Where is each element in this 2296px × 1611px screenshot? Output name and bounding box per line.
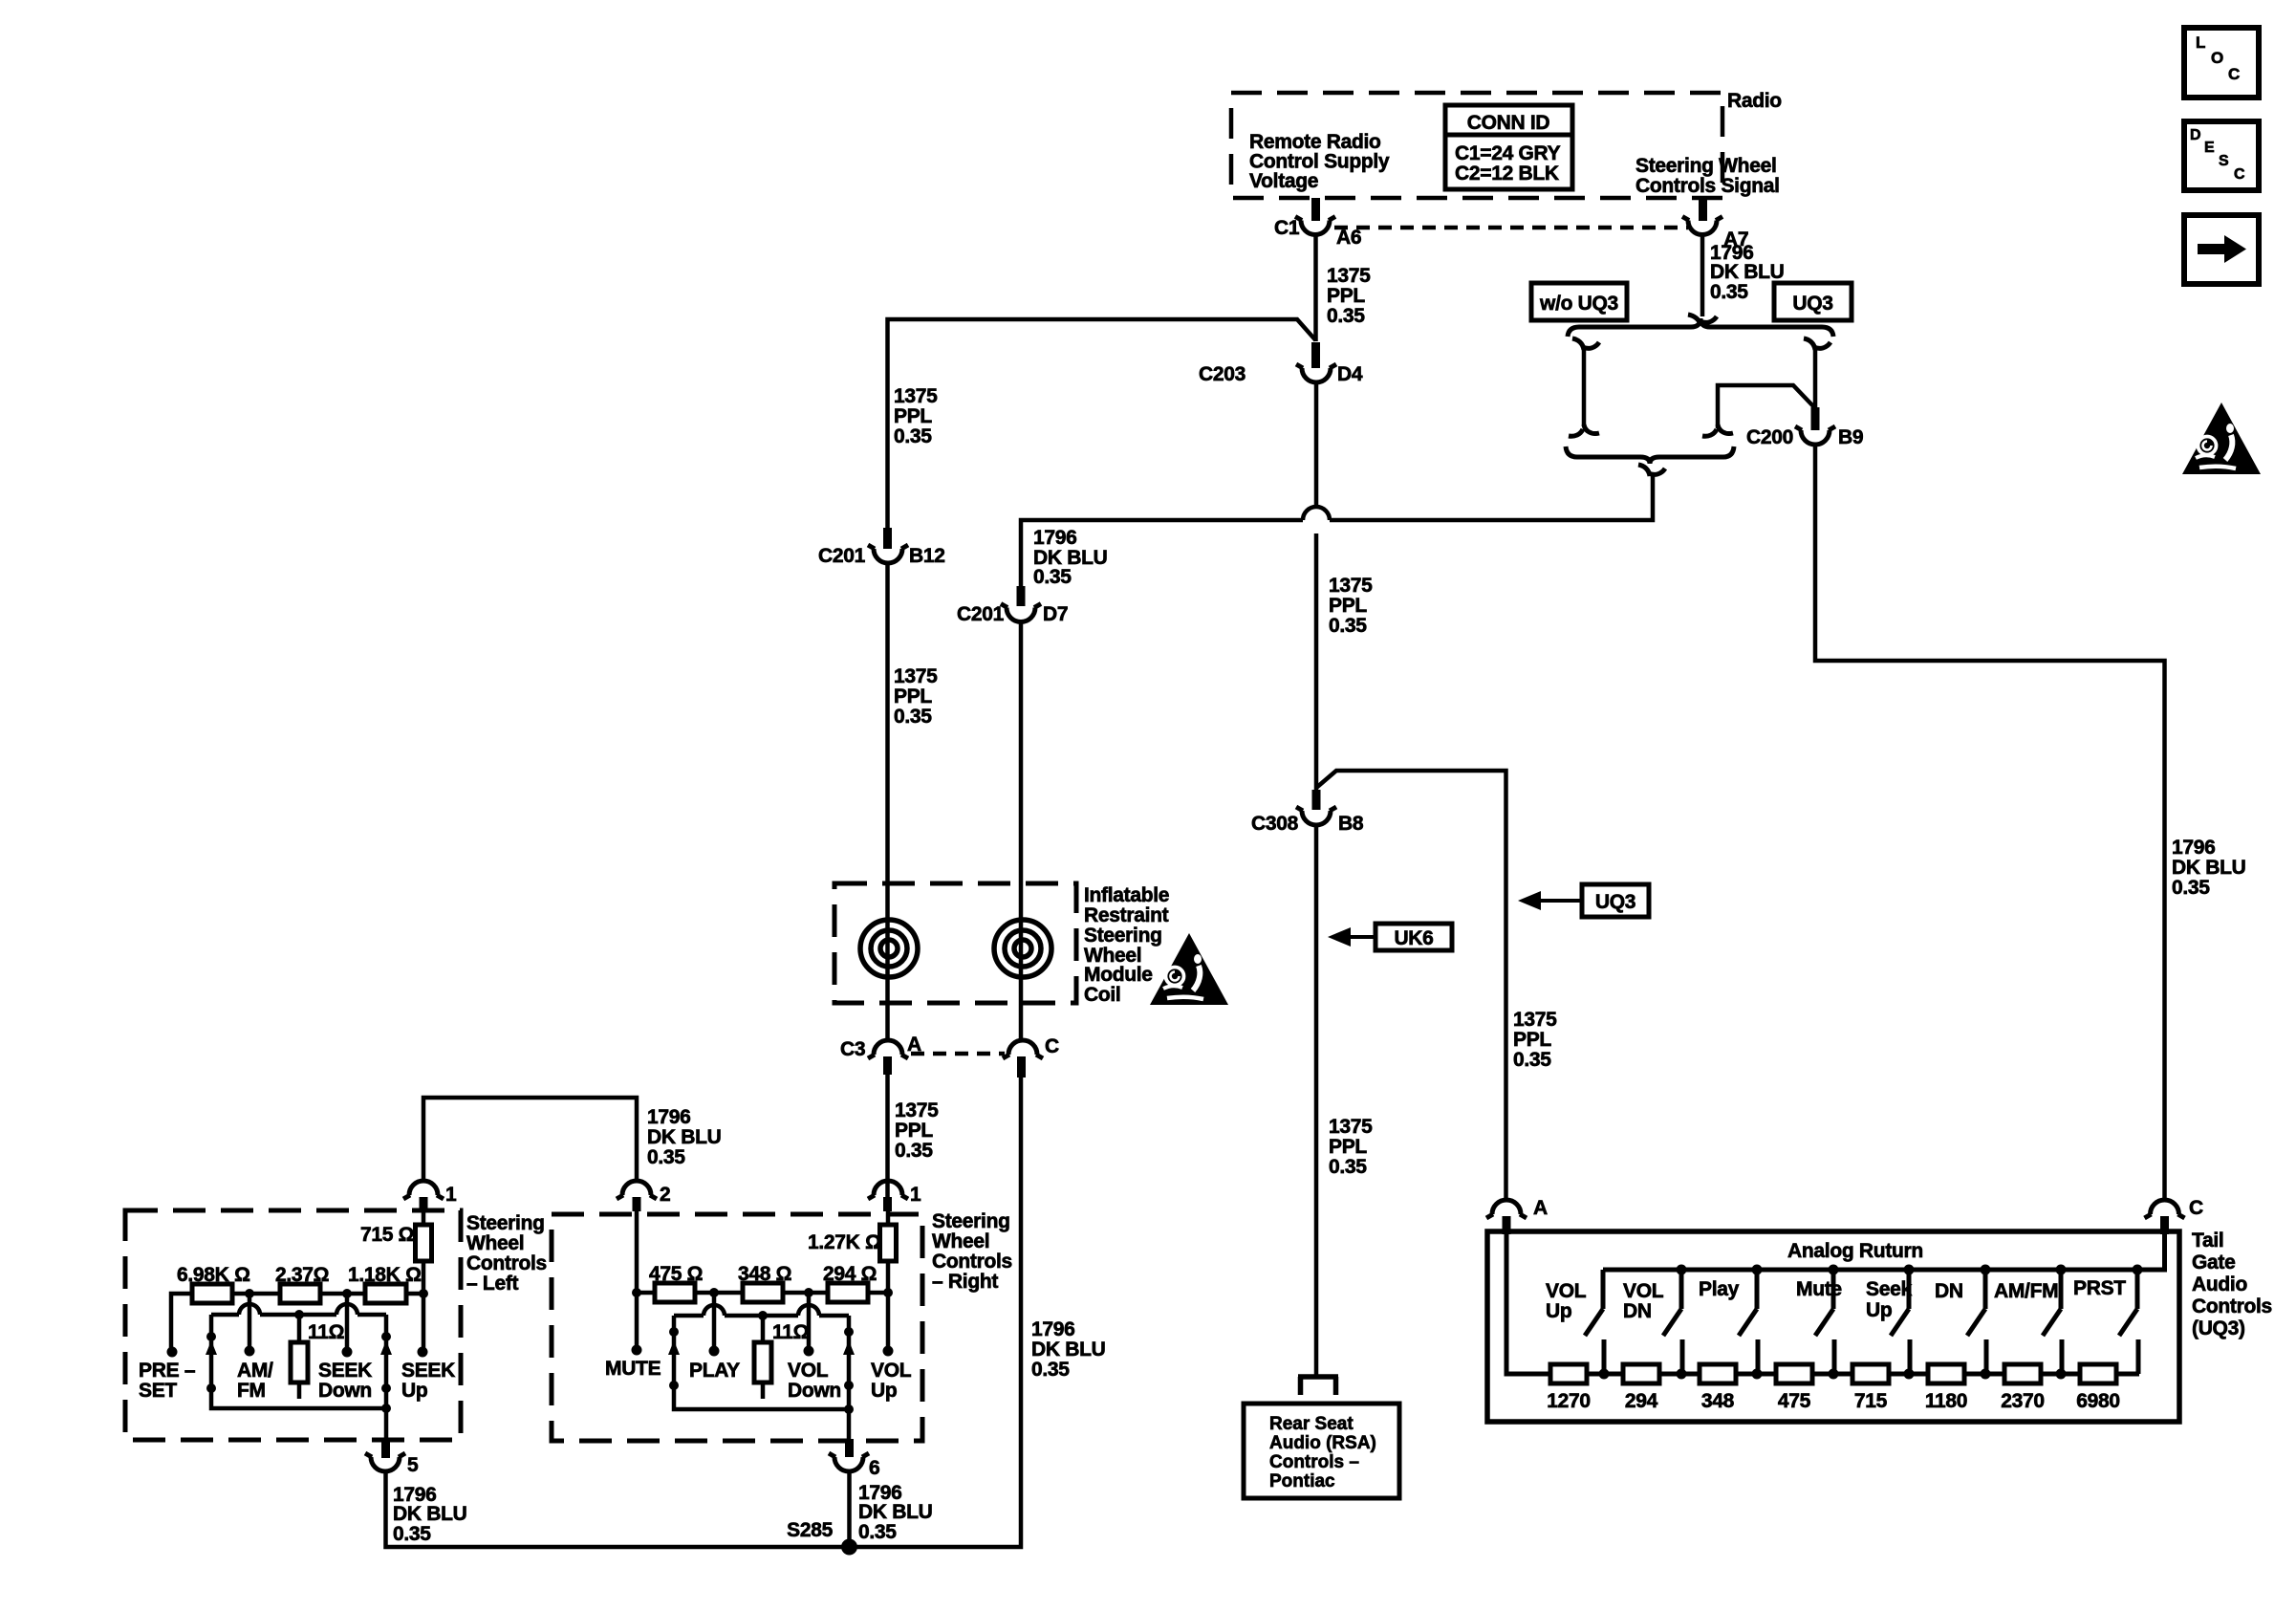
svg-text:Down: Down bbox=[318, 1380, 372, 1402]
svg-text:1375: 1375 bbox=[1329, 1116, 1373, 1138]
svg-text:294 Ω: 294 Ω bbox=[823, 1263, 877, 1285]
svg-text:1375: 1375 bbox=[894, 665, 938, 687]
svg-text:1796: 1796 bbox=[2172, 837, 2216, 859]
svg-text:5: 5 bbox=[407, 1454, 419, 1476]
svg-text:O: O bbox=[2211, 49, 2223, 67]
svg-text:1375: 1375 bbox=[1327, 265, 1371, 287]
svg-text:0.35: 0.35 bbox=[1513, 1049, 1551, 1071]
svg-text:VOL: VOL bbox=[788, 1360, 829, 1382]
svg-text:S: S bbox=[2219, 153, 2229, 169]
svg-text:Steering: Steering bbox=[466, 1212, 545, 1234]
svg-text:348: 348 bbox=[1701, 1390, 1735, 1412]
svg-text:Wheel: Wheel bbox=[932, 1230, 989, 1252]
svg-text:DK BLU: DK BLU bbox=[1710, 261, 1785, 283]
svg-text:0.35: 0.35 bbox=[858, 1521, 897, 1543]
svg-text:Radio: Radio bbox=[1727, 90, 1782, 112]
svg-text:C: C bbox=[1045, 1035, 1059, 1057]
svg-text:1796: 1796 bbox=[1031, 1318, 1075, 1340]
svg-text:Rear Seat: Rear Seat bbox=[1269, 1414, 1354, 1434]
svg-text:Voltage: Voltage bbox=[1249, 170, 1318, 192]
svg-text:0.35: 0.35 bbox=[894, 425, 932, 447]
svg-text:2.37Ω: 2.37Ω bbox=[275, 1264, 329, 1286]
svg-text:0.35: 0.35 bbox=[1710, 281, 1748, 303]
svg-text:D7: D7 bbox=[1043, 603, 1068, 625]
svg-text:475 Ω: 475 Ω bbox=[649, 1263, 703, 1285]
svg-text:B9: B9 bbox=[1838, 426, 1863, 448]
svg-text:PRST: PRST bbox=[2073, 1277, 2126, 1299]
svg-text:PPL: PPL bbox=[1327, 285, 1365, 307]
svg-text:DN: DN bbox=[1623, 1300, 1652, 1322]
svg-text:C200: C200 bbox=[1746, 426, 1793, 448]
svg-text:Controls –: Controls – bbox=[1269, 1452, 1359, 1472]
svg-text:1375: 1375 bbox=[1513, 1009, 1557, 1031]
svg-text:C308: C308 bbox=[1251, 813, 1299, 835]
svg-text:Seek: Seek bbox=[1866, 1278, 1912, 1300]
svg-text:– Right: – Right bbox=[932, 1271, 998, 1293]
svg-text:Play: Play bbox=[1699, 1278, 1740, 1300]
svg-text:1: 1 bbox=[910, 1184, 921, 1206]
svg-text:C201: C201 bbox=[818, 545, 866, 567]
svg-text:Analog Ruturn: Analog Ruturn bbox=[1787, 1240, 1923, 1262]
svg-text:Steering: Steering bbox=[932, 1210, 1010, 1232]
svg-text:VOL: VOL bbox=[1623, 1280, 1664, 1302]
svg-text:PLAY: PLAY bbox=[689, 1360, 740, 1382]
svg-text:w/o UQ3: w/o UQ3 bbox=[1539, 293, 1618, 315]
svg-text:UQ3: UQ3 bbox=[1792, 293, 1832, 315]
svg-text:Module: Module bbox=[1084, 964, 1153, 986]
svg-text:6980: 6980 bbox=[2076, 1390, 2120, 1412]
svg-text:Mute: Mute bbox=[1796, 1278, 1842, 1300]
svg-text:1180: 1180 bbox=[1925, 1390, 1967, 1412]
svg-text:PPL: PPL bbox=[895, 1120, 933, 1142]
svg-text:SEEK: SEEK bbox=[401, 1360, 455, 1382]
svg-text:DK BLU: DK BLU bbox=[1031, 1339, 1106, 1361]
svg-text:1796: 1796 bbox=[647, 1106, 691, 1128]
svg-text:Wheel: Wheel bbox=[466, 1232, 524, 1254]
svg-text:1375: 1375 bbox=[895, 1099, 939, 1121]
svg-text:C201: C201 bbox=[957, 603, 1005, 625]
svg-text:(UQ3): (UQ3) bbox=[2192, 1317, 2245, 1339]
svg-text:SEEK: SEEK bbox=[318, 1360, 372, 1382]
svg-text:C203: C203 bbox=[1199, 363, 1245, 385]
svg-text:715: 715 bbox=[1854, 1390, 1888, 1412]
svg-text:0.35: 0.35 bbox=[393, 1523, 431, 1545]
svg-text:0.35: 0.35 bbox=[647, 1146, 685, 1168]
svg-text:Controls Signal: Controls Signal bbox=[1635, 175, 1780, 197]
svg-text:C1: C1 bbox=[1274, 217, 1300, 239]
svg-text:DN: DN bbox=[1935, 1280, 1963, 1302]
svg-text:PPL: PPL bbox=[894, 686, 932, 708]
svg-text:FM: FM bbox=[237, 1380, 266, 1402]
svg-text:C2=12 BLK: C2=12 BLK bbox=[1455, 163, 1559, 185]
svg-text:Controls: Controls bbox=[466, 1252, 547, 1274]
svg-text:DK BLU: DK BLU bbox=[2172, 857, 2246, 879]
svg-text:PRE –: PRE – bbox=[139, 1360, 196, 1382]
svg-text:C: C bbox=[2189, 1197, 2203, 1219]
svg-text:D4: D4 bbox=[1337, 363, 1363, 385]
svg-text:0.35: 0.35 bbox=[1329, 1156, 1367, 1178]
svg-text:MUTE: MUTE bbox=[605, 1358, 661, 1380]
svg-text:DK BLU: DK BLU bbox=[393, 1503, 467, 1525]
svg-text:Gate: Gate bbox=[2192, 1252, 2236, 1274]
svg-text:AM/FM: AM/FM bbox=[1994, 1280, 2058, 1302]
svg-text:Restraint: Restraint bbox=[1084, 904, 1169, 926]
svg-text:A6: A6 bbox=[1336, 227, 1361, 249]
svg-text:Audio: Audio bbox=[2192, 1274, 2247, 1295]
svg-text:C: C bbox=[2228, 65, 2240, 83]
svg-text:S285: S285 bbox=[787, 1519, 833, 1541]
svg-text:A: A bbox=[1533, 1197, 1548, 1219]
svg-text:1375: 1375 bbox=[894, 385, 938, 407]
svg-text:6.98K Ω: 6.98K Ω bbox=[177, 1264, 250, 1286]
svg-text:1.18K Ω: 1.18K Ω bbox=[348, 1264, 422, 1286]
svg-text:Tail: Tail bbox=[2192, 1230, 2223, 1252]
svg-text:0.35: 0.35 bbox=[895, 1140, 933, 1162]
svg-text:– Left: – Left bbox=[466, 1273, 519, 1295]
svg-text:715 Ω: 715 Ω bbox=[360, 1224, 414, 1246]
svg-text:0.35: 0.35 bbox=[1327, 305, 1365, 327]
svg-text:Up: Up bbox=[1866, 1299, 1892, 1321]
svg-text:PPL: PPL bbox=[1329, 1136, 1367, 1158]
svg-text:Controls: Controls bbox=[932, 1251, 1012, 1273]
svg-text:6: 6 bbox=[869, 1457, 879, 1479]
svg-text:1375: 1375 bbox=[1329, 575, 1373, 597]
svg-text:C: C bbox=[2234, 166, 2245, 183]
svg-text:DK BLU: DK BLU bbox=[858, 1501, 933, 1523]
svg-text:1796: 1796 bbox=[1033, 527, 1077, 549]
svg-text:11Ω: 11Ω bbox=[772, 1321, 809, 1343]
svg-text:1.27K Ω: 1.27K Ω bbox=[808, 1231, 881, 1253]
svg-text:11Ω: 11Ω bbox=[308, 1321, 344, 1343]
svg-text:294: 294 bbox=[1625, 1390, 1658, 1412]
svg-text:AM/: AM/ bbox=[237, 1360, 273, 1382]
svg-text:0.35: 0.35 bbox=[2172, 877, 2210, 899]
svg-text:Inflatable: Inflatable bbox=[1084, 884, 1169, 906]
svg-text:Up: Up bbox=[1546, 1300, 1571, 1322]
svg-text:Coil: Coil bbox=[1084, 984, 1120, 1006]
svg-text:2: 2 bbox=[660, 1184, 670, 1206]
svg-text:Up: Up bbox=[871, 1380, 897, 1402]
svg-text:D: D bbox=[2190, 127, 2201, 143]
svg-text:SET: SET bbox=[139, 1380, 177, 1402]
svg-text:UQ3: UQ3 bbox=[1595, 891, 1635, 913]
svg-text:C1=24 GRY: C1=24 GRY bbox=[1455, 142, 1561, 164]
svg-text:Steering: Steering bbox=[1084, 925, 1162, 947]
svg-text:2370: 2370 bbox=[2001, 1390, 2045, 1412]
svg-text:0.35: 0.35 bbox=[1033, 566, 1072, 588]
svg-text:Pontiac: Pontiac bbox=[1269, 1471, 1335, 1491]
svg-text:VOL: VOL bbox=[1546, 1280, 1587, 1302]
svg-text:B8: B8 bbox=[1338, 813, 1364, 835]
svg-text:348 Ω: 348 Ω bbox=[738, 1263, 791, 1285]
svg-text:PPL: PPL bbox=[894, 405, 932, 427]
svg-text:0.35: 0.35 bbox=[894, 706, 932, 728]
svg-text:PPL: PPL bbox=[1513, 1029, 1551, 1051]
svg-text:0.35: 0.35 bbox=[1031, 1359, 1070, 1381]
svg-text:E: E bbox=[2204, 140, 2215, 156]
svg-text:Audio (RSA): Audio (RSA) bbox=[1269, 1433, 1376, 1453]
svg-text:L: L bbox=[2196, 33, 2205, 52]
svg-text:B12: B12 bbox=[909, 545, 945, 567]
svg-text:1: 1 bbox=[445, 1184, 457, 1206]
svg-text:Steering Wheel: Steering Wheel bbox=[1635, 155, 1777, 177]
svg-text:PPL: PPL bbox=[1329, 595, 1367, 617]
svg-text:VOL: VOL bbox=[871, 1360, 912, 1382]
svg-text:Controls: Controls bbox=[2192, 1295, 2272, 1317]
svg-text:C3: C3 bbox=[840, 1038, 865, 1060]
svg-text:DK BLU: DK BLU bbox=[647, 1126, 722, 1148]
svg-text:0.35: 0.35 bbox=[1329, 615, 1367, 637]
svg-text:UK6: UK6 bbox=[1394, 927, 1433, 949]
svg-text:475: 475 bbox=[1778, 1390, 1811, 1412]
svg-text:Up: Up bbox=[401, 1380, 427, 1402]
svg-text:CONN ID: CONN ID bbox=[1467, 112, 1550, 134]
svg-text:1270: 1270 bbox=[1547, 1390, 1591, 1412]
svg-text:Down: Down bbox=[788, 1380, 841, 1402]
